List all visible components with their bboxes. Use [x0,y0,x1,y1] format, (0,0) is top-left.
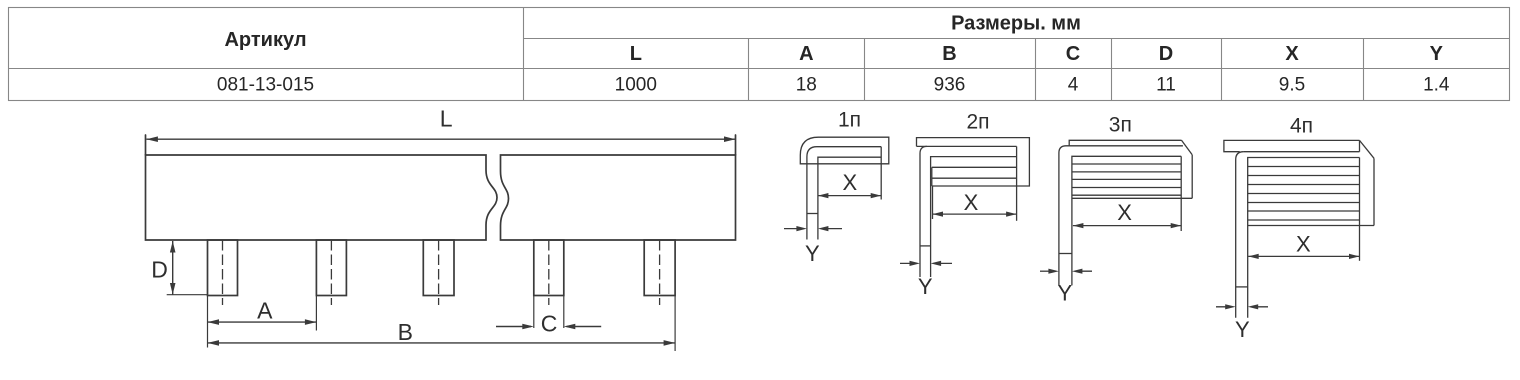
busbar body left piece with break curve [146,155,498,240]
svg-text:1.4: 1.4 [1423,74,1450,95]
2p outer box [917,138,1030,186]
3p Y dimension arrows [1040,269,1092,274]
4p finger3 top [1248,193,1360,195]
3p finger3 top [1072,187,1181,189]
dimension extension lines [167,295,675,351]
svg-text:18: 18 [796,74,817,95]
4p finger4 top [1248,210,1360,212]
svg-text:Y: Y [918,274,933,299]
1p strip right end + X extension [880,147,882,200]
1p tick on pin [807,213,818,215]
3p finger3 bottom [1072,194,1181,196]
pin 5 [644,240,675,296]
3p bevel corner [1182,140,1193,155]
4p pin right edge + finger1 top [1248,158,1360,318]
4p finger2 bottom [1248,184,1360,186]
dimension B [208,340,676,346]
2p X left extension [932,186,934,219]
svg-text:X: X [1296,232,1311,257]
pin 1 [208,240,238,296]
2p finger2 bottom [932,177,1017,179]
3p bottom line [1072,197,1192,199]
3p X dimension [1073,223,1181,228]
svg-text:D: D [1159,43,1173,65]
svg-text:Размеры. мм: Размеры. мм [951,13,1081,35]
dimension A [208,319,317,325]
pin centerlines (dashed) [223,240,660,305]
svg-text:C: C [541,311,558,337]
3p pin left edge with bend [1059,146,1066,286]
4p finger4 bottom [1248,219,1360,221]
table grid [9,8,1510,101]
3p main top line [1066,145,1183,147]
svg-text:Артикул: Артикул [224,29,306,51]
svg-text:B: B [398,319,413,345]
4p bottom line [1248,225,1374,227]
2p finger1 top line (tab bottom continues) [917,145,1017,147]
svg-text:A: A [257,297,273,323]
2p X dimension [933,212,1017,217]
pin 3 [423,240,454,296]
4p second line from bend [1244,151,1360,153]
svg-text:4: 4 [1068,74,1079,95]
4p bevel corner [1360,140,1375,158]
svg-text:Y: Y [1430,43,1444,65]
1p sheath flag [800,137,889,164]
svg-text:936: 936 [934,74,966,95]
svg-text:Y: Y [805,241,820,266]
svg-text:L: L [440,106,453,132]
svg-text:B: B [942,43,956,65]
dimension C (outside arrows) [496,324,601,330]
svg-text:X: X [964,190,979,215]
D bottom reference line [167,294,208,296]
4p finger1 bottom [1248,166,1360,168]
4p right edge [1373,158,1375,225]
4p tab sticking out left [1224,140,1360,151]
svg-text:X: X [1285,43,1299,65]
3p fold vertical + X extension [1180,156,1182,231]
4p pin left edge with bend [1236,152,1244,318]
svg-text:081-13-015: 081-13-015 [217,74,314,95]
2p fold vertical + X extension [1016,146,1018,220]
1p X dimension [818,193,881,198]
svg-text:Y: Y [1057,281,1072,306]
3p finger2 top [1072,171,1181,173]
svg-text:11: 11 [1156,74,1176,95]
2p tick on pin [920,245,931,247]
svg-text:3п: 3п [1109,114,1132,137]
svg-text:Y: Y [1235,317,1250,342]
4p X dimension [1248,254,1359,259]
4p tick on pin [1236,286,1248,288]
svg-text:2п: 2п [966,111,989,134]
3p right edge [1191,155,1193,199]
4p finger2 top [1248,175,1360,177]
3p tick on pin [1059,253,1072,255]
2p pin left edge with bend from finger1 top [920,146,927,277]
pin 2 [316,240,346,296]
svg-text:4п: 4п [1290,114,1313,137]
svg-text:1000: 1000 [615,74,657,95]
3p raised tab [1069,140,1181,146]
4p Y dimension arrows [1216,304,1268,309]
2p Y dimension arrows [900,261,952,266]
4p strip1 right closure [1359,140,1361,151]
svg-text:1п: 1п [838,108,861,131]
3p pin right edge + finger1 top [1072,156,1181,285]
1p strip inner: pin right edge + bottom finger line [818,157,881,239]
4p finger3 bottom [1248,202,1360,204]
1p strip outer: pin left edge + bend + top finger line [807,147,881,240]
svg-text:9.5: 9.5 [1279,74,1305,95]
2p pin right edge + finger1 bottom [931,157,1017,277]
dimension L [146,136,735,142]
busbar body right piece with break curve [501,155,736,240]
pin 4 [534,240,564,296]
svg-text:A: A [799,43,813,65]
extension lines up to L dimension [145,135,147,155]
4p fold vertical + X extension [1359,158,1361,261]
svg-text:X: X [842,170,857,195]
dimension D (vertical) [170,241,176,295]
svg-text:D: D [151,256,168,282]
2p finger2 left closure [931,167,933,186]
1p Y dimension arrows [784,226,842,231]
2p finger2 top [932,166,1017,168]
svg-text:C: C [1066,43,1080,65]
3p finger2 bottom [1072,178,1181,180]
svg-text:X: X [1117,200,1132,225]
3p finger1 bottom [1072,163,1181,165]
svg-text:L: L [630,43,642,65]
